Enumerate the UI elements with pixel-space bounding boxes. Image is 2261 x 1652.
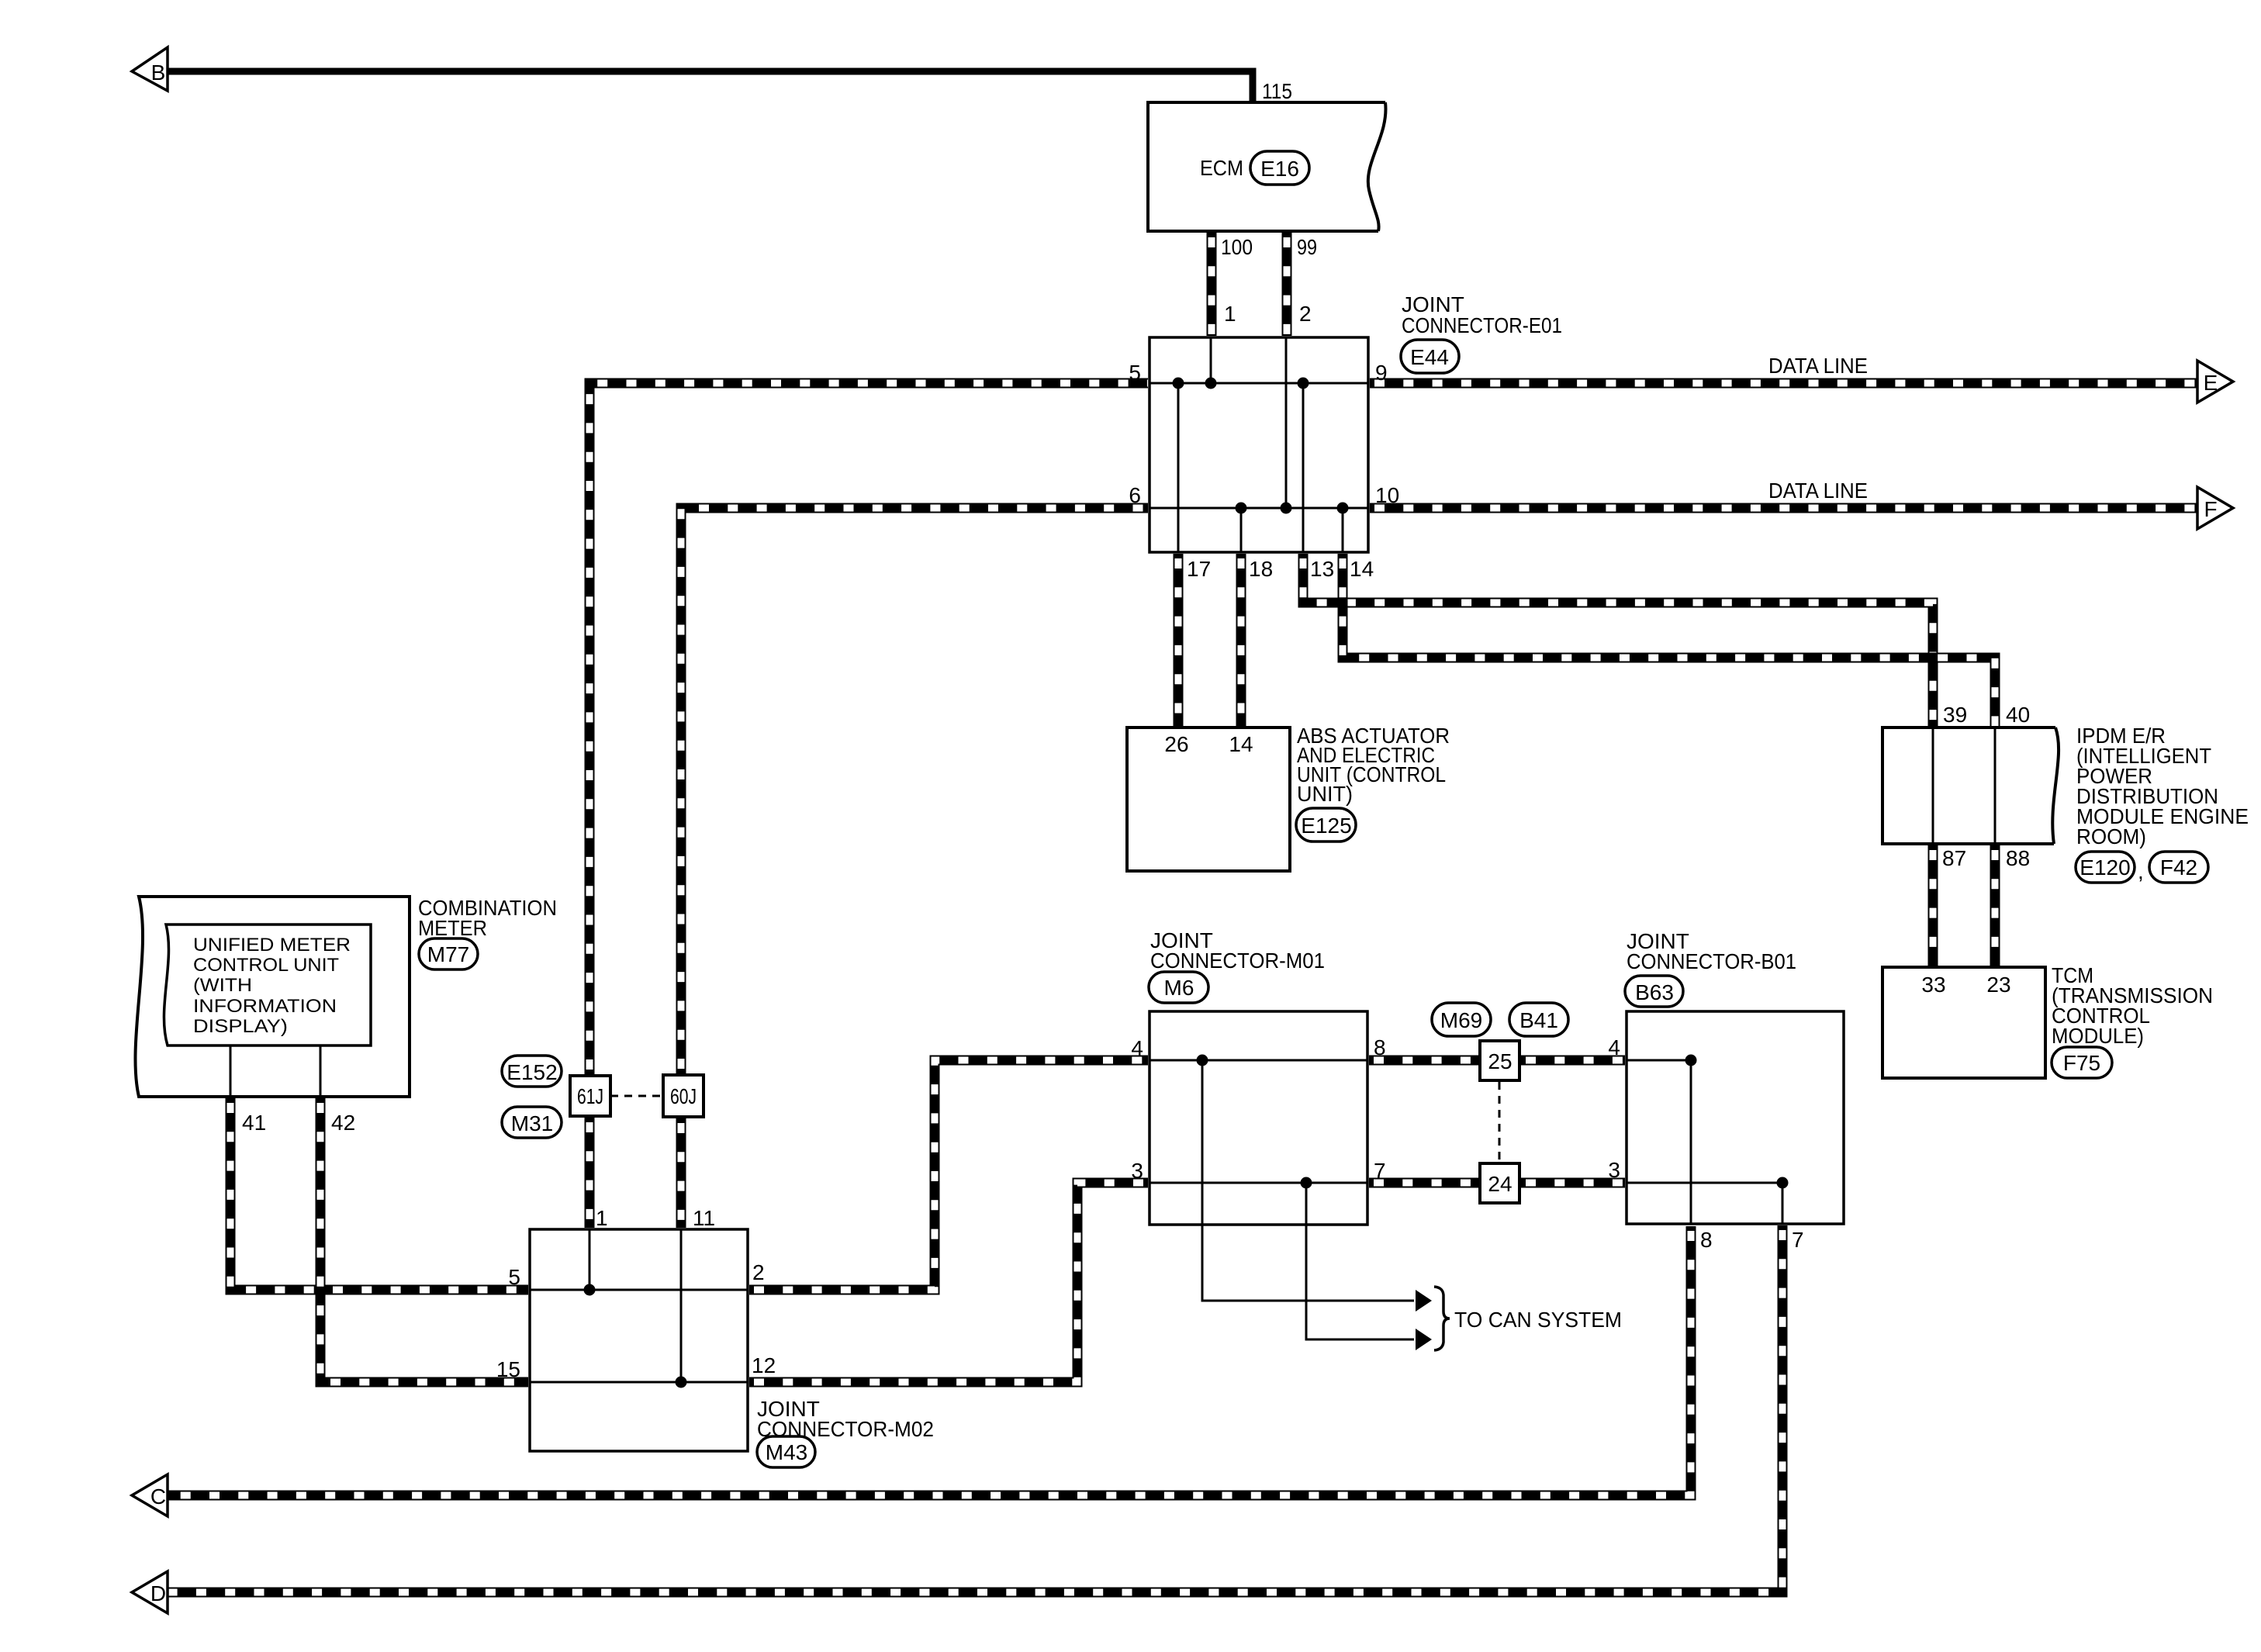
svg-text:18: 18 — [1249, 557, 1273, 581]
ECM U1 box — [1148, 102, 1386, 231]
svg-text:E152: E152 — [506, 1060, 557, 1084]
svg-text:4: 4 — [1608, 1035, 1620, 1059]
label TCM (TRANSMISSION CONTROL MODULE) — [2052, 963, 2213, 1048]
svg-text:METER: METER — [418, 916, 487, 940]
svg-text:115: 115 — [1262, 79, 1292, 103]
connector oval M43 — [757, 1436, 815, 1467]
wire CAN-H left segment (E01 pin 5 down to joint 61J) — [589, 383, 1148, 1074]
connector oval E120 — [2076, 852, 2135, 883]
svg-text:39: 39 — [1943, 703, 1967, 727]
svg-text:CONTROL UNIT: CONTROL UNIT — [193, 955, 339, 976]
wire ECM pin 100 to E01 pin 1 — [1207, 233, 1217, 336]
svg-text:B63: B63 — [1635, 980, 1674, 1004]
svg-text:2: 2 — [1299, 302, 1312, 326]
svg-text:5: 5 — [1129, 361, 1141, 385]
splice 61J — [570, 1076, 610, 1116]
wire meter pin 41 to M02 pin 5 — [230, 1098, 528, 1290]
svg-text:M43: M43 — [766, 1440, 807, 1464]
wire B (thick solid line from ECM pin 115 to arrow B) — [168, 68, 1257, 75]
wire M01 pin4 to CAN arrow 1 — [1202, 1060, 1414, 1301]
svg-text:F75: F75 — [2063, 1051, 2100, 1075]
wire B01 pin 7 to arrow D — [168, 1225, 1782, 1592]
svg-text:CONNECTOR-B01: CONNECTOR-B01 — [1627, 949, 1796, 973]
wire 60J to M02 pin 11 — [676, 1118, 686, 1228]
TCM box — [1882, 967, 2045, 1078]
svg-text:41: 41 — [242, 1111, 266, 1135]
svg-text:2: 2 — [752, 1260, 765, 1284]
splice 25 — [1480, 1041, 1519, 1080]
svg-text:M31: M31 — [511, 1111, 553, 1135]
joint connector E01 box — [1150, 337, 1368, 552]
node E01 pin17 junction — [1173, 378, 1184, 389]
arrowhead to CAN 1 — [1416, 1290, 1432, 1312]
wire ECM pin 99 to E01 pin 2 — [1282, 233, 1292, 336]
svg-text:11: 11 — [693, 1206, 715, 1230]
svg-text:23: 23 — [1986, 973, 2010, 997]
wire M02 pin 12 to M01 pin 3 — [749, 1183, 1148, 1382]
connector oval B63 — [1625, 976, 1683, 1007]
svg-text:1: 1 — [596, 1206, 608, 1230]
label JOINT CONNECTOR-M02 — [757, 1397, 934, 1441]
svg-text:C: C — [150, 1484, 166, 1509]
wire B01 pin 8 to arrow C — [168, 1226, 1691, 1495]
connector oval E125 — [1296, 808, 1356, 842]
svg-text:26: 26 — [1164, 732, 1188, 756]
svg-text:12: 12 — [752, 1353, 776, 1377]
wire meter 41 internal — [230, 1045, 232, 1097]
svg-text:F: F — [2204, 497, 2217, 521]
combination meter outer box — [135, 897, 410, 1097]
svg-text:DISPLAY): DISPLAY) — [193, 1016, 288, 1037]
svg-text:E120: E120 — [2079, 855, 2130, 880]
svg-text:1: 1 — [1224, 302, 1236, 326]
connector oval M6 — [1149, 972, 1208, 1003]
wire CAN-L left segment (E01 pin 6 down to joint 60J) — [681, 508, 1148, 1073]
arrow C — [132, 1474, 168, 1516]
svg-text:M77: M77 — [427, 942, 469, 966]
connector oval E152 — [502, 1056, 562, 1087]
label JOINT CONNECTOR-M01 — [1150, 928, 1325, 973]
node M02 pin1 junction — [584, 1284, 596, 1296]
svg-text:D: D — [150, 1581, 166, 1605]
svg-text:E: E — [2204, 371, 2218, 395]
wire DATA LINE E (E01 pin 9 to arrow E) — [1370, 378, 2197, 389]
splice 24 — [1480, 1163, 1519, 1203]
svg-text:E16: E16 — [1260, 157, 1299, 181]
svg-text:INFORMATION: INFORMATION — [193, 996, 337, 1017]
arrow E — [2197, 361, 2233, 403]
label UNIFIED METER CONTROL UNIT (WITH INFORMATION DISPLAY) — [193, 935, 351, 1037]
svg-text:8: 8 — [1374, 1035, 1386, 1059]
joint connector B01 box — [1627, 1011, 1844, 1224]
wire 61J to M02 pin 1 — [585, 1118, 595, 1228]
wire E01 pin 14 to IPDM pin 40 — [1343, 554, 1995, 726]
wire M01 pin3 to CAN arrow 2 — [1306, 1183, 1414, 1339]
svg-text:9: 9 — [1375, 361, 1388, 385]
node B01 pin3 junction — [1777, 1177, 1789, 1189]
wire meter 42 internal — [320, 1045, 322, 1097]
wire joint 24 to B01 pin 3 — [1521, 1178, 1625, 1188]
connector oval E44 — [1401, 340, 1459, 373]
wire IPDM pin 87 to TCM pin 33 — [1928, 845, 1938, 966]
svg-text:CONNECTOR-M01: CONNECTOR-M01 — [1150, 949, 1325, 973]
node M02 pin11 junction — [676, 1377, 687, 1388]
svg-text:99: 99 — [1297, 235, 1317, 259]
unified meter control unit inner box — [164, 924, 371, 1045]
svg-text:B41: B41 — [1519, 1008, 1558, 1032]
svg-text:CONNECTOR-E01: CONNECTOR-E01 — [1402, 313, 1562, 337]
svg-text:24: 24 — [1488, 1172, 1512, 1196]
connector oval E16 — [1250, 151, 1309, 185]
svg-text:10: 10 — [1375, 483, 1399, 507]
connector oval M77 — [419, 938, 478, 969]
connector oval F75 — [2052, 1047, 2112, 1078]
connector oval F42 — [2149, 852, 2208, 883]
svg-text:(WITH: (WITH — [193, 975, 252, 996]
svg-text:14: 14 — [1229, 732, 1253, 756]
ABS actuator unit box — [1127, 728, 1290, 871]
svg-text:42: 42 — [331, 1111, 355, 1135]
svg-text:E44: E44 — [1410, 345, 1449, 369]
joint connector M01 box — [1150, 1011, 1367, 1225]
dashed link 61J-60J — [610, 1095, 663, 1097]
svg-text:UNIFIED METER: UNIFIED METER — [193, 935, 351, 956]
wire M01 pin 7 to joint 24 — [1369, 1178, 1478, 1188]
svg-text:15: 15 — [496, 1357, 520, 1381]
label JOINT CONNECTOR-B01 — [1627, 929, 1796, 973]
svg-text:4: 4 — [1131, 1036, 1143, 1060]
svg-text:ROOM): ROOM) — [2076, 824, 2146, 848]
svg-text:DATA LINE: DATA LINE — [1768, 354, 1868, 378]
node E01 pin2 junction — [1281, 503, 1292, 514]
node E01 pin18 junction — [1236, 503, 1247, 514]
svg-text:E125: E125 — [1301, 814, 1351, 838]
wire M01 pin 8 to joint 25 — [1369, 1056, 1478, 1066]
svg-text:60J: 60J — [670, 1084, 697, 1108]
wire joint 25 to B01 pin 4 — [1521, 1056, 1625, 1066]
svg-text:M6: M6 — [1164, 976, 1194, 1000]
joint connector M02 box — [530, 1229, 748, 1451]
svg-text:88: 88 — [2006, 846, 2030, 870]
svg-text:B: B — [151, 60, 166, 85]
dashed link 25-24 — [1499, 1082, 1501, 1162]
wire E01 pin 17 to ABS pin 26 — [1174, 554, 1184, 726]
svg-text:DATA LINE: DATA LINE — [1768, 479, 1868, 503]
label IPDM E/R (INTELLIGENT POWER DISTRIBUTION MODULE ENGINE ROOM) — [2076, 724, 2249, 848]
node M01 pin3 junction — [1301, 1177, 1312, 1189]
svg-text:M69: M69 — [1440, 1008, 1482, 1032]
svg-text:61J: 61J — [577, 1084, 603, 1108]
svg-text:7: 7 — [1374, 1159, 1386, 1183]
svg-text:ECM: ECM — [1200, 156, 1243, 180]
svg-text:7: 7 — [1792, 1228, 1804, 1252]
splice 60J — [663, 1075, 704, 1117]
svg-text:13: 13 — [1310, 557, 1334, 581]
wire M02 pin 2 to M01 pin 4 — [749, 1060, 1148, 1290]
curly brace — [1434, 1287, 1450, 1350]
node B01 pin4 junction — [1685, 1055, 1697, 1066]
svg-text:8: 8 — [1700, 1228, 1713, 1252]
svg-text:25: 25 — [1488, 1049, 1512, 1073]
arrow B — [132, 47, 168, 91]
arrowhead to CAN 2 — [1416, 1329, 1432, 1350]
svg-text:3: 3 — [1608, 1158, 1620, 1182]
svg-text:,: , — [2138, 859, 2144, 883]
connector oval M31 — [502, 1107, 562, 1138]
svg-text:TO CAN SYSTEM: TO CAN SYSTEM — [1454, 1308, 1622, 1332]
connector oval M69 — [1432, 1003, 1491, 1036]
svg-text:33: 33 — [1921, 973, 1945, 997]
wire DATA LINE F (E01 pin 10 to arrow F) — [1370, 503, 2197, 513]
svg-text:40: 40 — [2006, 703, 2030, 727]
svg-text:17: 17 — [1187, 557, 1211, 581]
node M01 pin4 junction — [1197, 1055, 1208, 1066]
svg-text:87: 87 — [1942, 846, 1966, 870]
IPDM E/R box — [1882, 728, 2059, 844]
svg-text:3: 3 — [1131, 1159, 1143, 1183]
svg-text:5: 5 — [508, 1265, 520, 1289]
svg-text:6: 6 — [1129, 483, 1141, 507]
wire IPDM pin 88 to TCM pin 23 — [1990, 845, 2000, 966]
node E01 pin13 junction — [1298, 378, 1309, 389]
wire E01 pin 13 to IPDM pin 39 — [1303, 554, 1933, 726]
svg-text:MODULE): MODULE) — [2052, 1024, 2144, 1048]
connector oval B41 — [1509, 1003, 1568, 1036]
label JOINT CONNECTOR-E01 — [1402, 292, 1562, 337]
wire E01 pin 18 to ABS pin 14 — [1236, 554, 1246, 726]
node E01 pin1 junction — [1205, 378, 1217, 389]
arrow D — [132, 1571, 168, 1613]
svg-text:UNIT): UNIT) — [1297, 782, 1353, 806]
svg-text:14: 14 — [1350, 557, 1374, 581]
label ABS ACTUATOR AND ELECTRIC UNIT (CONTROL UNIT) — [1297, 724, 1450, 806]
svg-text:100: 100 — [1221, 235, 1253, 259]
node E01 pin14 junction — [1337, 503, 1349, 514]
label COMBINATION METER — [418, 896, 557, 940]
svg-text:F42: F42 — [2160, 855, 2197, 880]
wire meter pin 42 to M02 pin 15 — [320, 1098, 528, 1382]
arrow F — [2197, 487, 2233, 529]
